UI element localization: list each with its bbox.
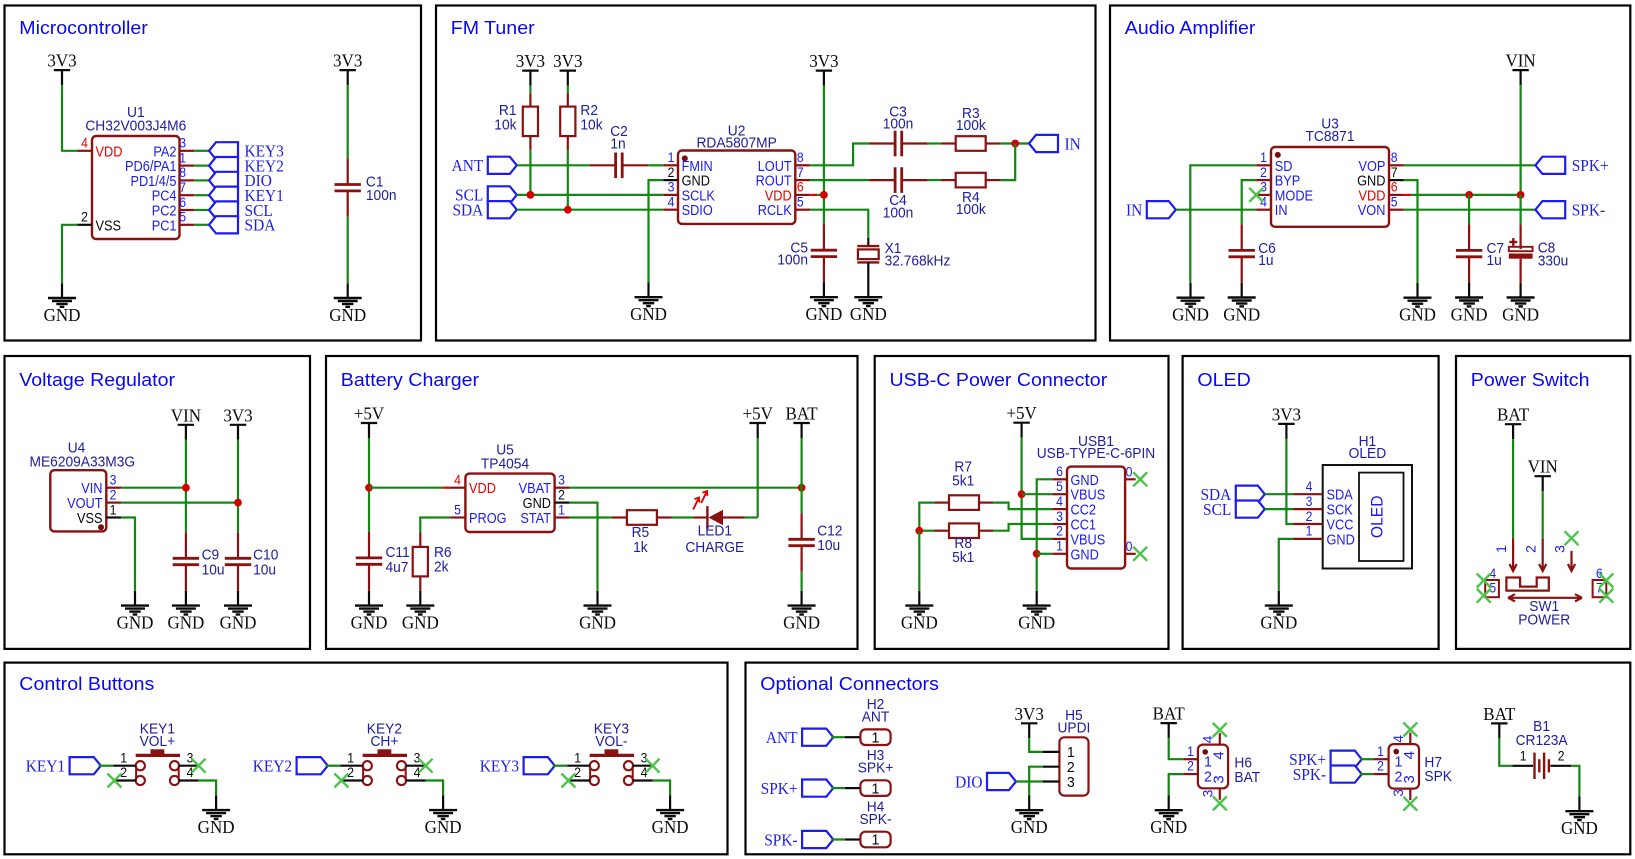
pin 3 of H7 (bottom) [1390, 775, 1418, 800]
svg-text:VOL+: VOL+ [140, 732, 176, 748]
pin 6 GND of USB1 [1052, 463, 1099, 488]
pin 7 GND of U3 [1357, 164, 1404, 189]
power VIN (amp) [1505, 50, 1535, 85]
svg-text:Battery Charger: Battery Charger [341, 371, 480, 391]
svg-text:GND: GND [167, 612, 204, 633]
power BAT (charger) [786, 403, 818, 438]
svg-text:Voltage Regulator: Voltage Regulator [19, 371, 175, 391]
wire C7 to VDD [1468, 195, 1470, 225]
svg-text:C9: C9 [202, 546, 220, 562]
svg-text:GND: GND [198, 817, 235, 838]
svg-text:3V3: 3V3 [333, 50, 362, 71]
svg-text:3: 3 [641, 750, 648, 766]
svg-text:3V3: 3V3 [809, 51, 838, 72]
pin 1 of H7 [1373, 743, 1402, 771]
pin 3 of SW1 (no connect) [1551, 531, 1578, 571]
svg-text:1: 1 [1187, 743, 1194, 759]
pin 2 GND of U5 [523, 487, 570, 512]
svg-text:2: 2 [1187, 758, 1194, 774]
pin 3 SCLK of U2 [663, 179, 715, 204]
no-connect X H7 pin3 [1403, 797, 1417, 811]
svg-text:BAT: BAT [1497, 404, 1529, 425]
svg-text:10u: 10u [253, 561, 276, 577]
svg-text:2: 2 [1377, 758, 1384, 774]
junction +5V-VDD [365, 484, 373, 492]
wire 3V3 to U1 VDD [62, 85, 78, 151]
svg-text:SDA: SDA [452, 202, 483, 220]
hierarchical label ANT [452, 157, 517, 176]
ground (U5 GND) [579, 591, 616, 633]
svg-text:KEY3: KEY3 [480, 758, 519, 776]
wire DIO to H5 pin3 [1016, 780, 1042, 782]
wire VIN rail [185, 440, 187, 533]
no-connect X KEY1 pin2 [107, 774, 121, 788]
hierarchical label DIO [209, 172, 272, 191]
wire BAT to H6 pin1 [1169, 738, 1184, 759]
svg-text:5: 5 [1391, 194, 1398, 210]
svg-text:100n: 100n [883, 115, 914, 131]
wire U1 PD1/4/5 to label DIO [194, 179, 209, 181]
no-connect X SW1 pin6 [1599, 574, 1613, 588]
svg-text:VIN: VIN [1505, 50, 1535, 71]
svg-text:GND: GND [630, 304, 667, 325]
pin 5 VON of U3 [1358, 194, 1404, 219]
no-connect X SW1 pin5 [1477, 589, 1491, 603]
svg-text:LED1: LED1 [698, 522, 733, 538]
svg-text:Audio Amplifier: Audio Amplifier [1125, 18, 1256, 38]
junction VDD-C8 [1517, 191, 1525, 199]
junction VOUT-3V3 [234, 499, 242, 507]
wire R8 to CC1 [993, 524, 1052, 531]
svg-text:32.768kHz: 32.768kHz [885, 252, 951, 268]
pin 3 of H5 [1043, 774, 1075, 790]
power VIN (regulator) [171, 405, 201, 440]
svg-text:1: 1 [347, 750, 354, 766]
wire C1 to GND [347, 217, 349, 283]
pin 8 LOUT of U2 [758, 149, 810, 174]
wire KEY2 to switch [326, 765, 341, 767]
svg-text:SPK-: SPK- [764, 832, 797, 850]
capacitor C8 330u polarized [1509, 224, 1569, 282]
svg-text:Microcontroller: Microcontroller [19, 18, 148, 38]
hierarchical label SPK+ (H7) [1289, 751, 1362, 770]
wire ANT to C2 [517, 164, 590, 166]
svg-text:VON: VON [1358, 201, 1386, 218]
svg-text:C10: C10 [253, 546, 278, 562]
svg-text:ANT: ANT [766, 730, 798, 748]
svg-text:1: 1 [1520, 748, 1527, 764]
switch KEY3 VOL- [567, 720, 652, 785]
wire B1 to ground [1571, 766, 1579, 797]
svg-text:VDD: VDD [469, 479, 496, 496]
pin 4 of H7 (top) [1390, 733, 1418, 760]
section frame Power Switch [1456, 356, 1630, 649]
ground (KEY3) [652, 795, 689, 837]
wire U4 VSS to ground [121, 518, 135, 591]
ground (X1) [850, 283, 887, 325]
svg-text:GND: GND [351, 612, 388, 633]
pin 1 SD of U3 [1256, 149, 1292, 174]
ground (C9) [167, 591, 204, 633]
wire 3V3 rail [237, 440, 239, 533]
pins 4 5 of SW1 [1485, 565, 1499, 597]
connector USB1 USB-TYPE-C-6PIN [1037, 433, 1155, 569]
ic U2 RDA5807MP [678, 122, 795, 224]
resistor R5 1k [612, 510, 672, 555]
svg-text:3V3: 3V3 [1272, 404, 1301, 425]
svg-text:Control Buttons: Control Buttons [19, 675, 154, 695]
svg-text:7: 7 [179, 179, 186, 195]
hierarchical label KEY3 [480, 757, 555, 776]
svg-text:2: 2 [574, 764, 581, 780]
svg-text:GND: GND [805, 304, 842, 325]
pin 8 VOP of U3 [1358, 149, 1403, 174]
svg-text:2: 2 [1523, 545, 1539, 553]
svg-text:GND: GND [850, 304, 887, 325]
power 3V3 (R2) [553, 51, 582, 86]
svg-text:VOL-: VOL- [595, 732, 627, 748]
wire SCL to U2 SCLK [517, 194, 663, 196]
wire SPK+ to H3 [831, 787, 860, 789]
svg-text:VSS: VSS [77, 509, 102, 526]
svg-text:SDIO: SDIO [682, 201, 713, 218]
wire GND pin1 join [1037, 553, 1053, 555]
power 3V3 (regulator) [223, 405, 252, 440]
svg-text:1: 1 [1056, 538, 1063, 554]
pin 1 GND of USB1 [1052, 538, 1099, 563]
pin 2 VOUT of U4 [67, 487, 121, 512]
wire U5 PROG to R6 [420, 518, 450, 533]
power +5V (LED) [743, 403, 774, 438]
wire R7 to CC2 [993, 503, 1052, 510]
wire U2 LOUT to C3 [810, 144, 869, 166]
svg-text:OLED: OLED [1197, 371, 1250, 391]
svg-text:1: 1 [1306, 523, 1313, 539]
wire GND pins bus [1037, 479, 1053, 591]
power BAT (B1) [1483, 703, 1515, 738]
svg-text:1u: 1u [1487, 252, 1502, 268]
section frame USB-C Power Connector [875, 356, 1169, 649]
capacitor C1 100n [335, 158, 397, 217]
section frame OLED [1183, 356, 1439, 649]
pin 2 VSS of U1 [78, 209, 121, 234]
wire R1 to SCL [529, 150, 531, 195]
svg-text:GND: GND [1223, 304, 1260, 325]
hierarchical label SCL [209, 201, 273, 220]
svg-text:2: 2 [81, 209, 88, 225]
svg-text:BAT: BAT [1483, 703, 1515, 724]
svg-text:100n: 100n [883, 204, 914, 220]
svg-text:3: 3 [1401, 775, 1418, 783]
hierarchical label KEY1 [26, 757, 101, 776]
wire LED1 to +5V [745, 516, 758, 518]
svg-text:1: 1 [1493, 545, 1509, 553]
svg-text:DIO: DIO [955, 774, 982, 792]
wire VIN to VDD rail [1519, 85, 1521, 195]
hierarchical label SDA [452, 201, 516, 220]
svg-text:1: 1 [872, 730, 880, 746]
wire BAT to B1 [1499, 738, 1512, 765]
pin 4 VDD of U5 [450, 472, 495, 497]
wire 3V3 to OLED VCC [1286, 439, 1293, 524]
hierarchical label IN (FM out) [1029, 135, 1081, 154]
svg-text:GND: GND [1260, 612, 1297, 633]
svg-text:CH32V003J4M6: CH32V003J4M6 [85, 117, 186, 133]
svg-text:3V3: 3V3 [223, 405, 252, 426]
section frame Battery Charger [326, 356, 858, 649]
pin 2 VBUS of USB1 [1052, 523, 1105, 548]
wire R8 to ground [918, 531, 920, 591]
svg-text:2: 2 [110, 487, 117, 503]
section frame Microcontroller [5, 6, 422, 341]
capacitor C10 10u [225, 532, 279, 591]
power BAT (H6) [1153, 703, 1185, 738]
pin 8 PD1/4/5 of U1 [130, 164, 194, 189]
ground (U3 GND) [1399, 283, 1436, 325]
svg-text:SPK+: SPK+ [858, 759, 894, 775]
no-connect X shield bottom [1133, 547, 1147, 561]
svg-text:2: 2 [668, 164, 675, 180]
svg-text:2: 2 [1558, 748, 1565, 764]
svg-text:3V3: 3V3 [553, 51, 582, 72]
svg-text:100n: 100n [366, 187, 397, 203]
ground (H6) [1150, 796, 1187, 838]
connector H4 SPK- [859, 798, 891, 849]
no-connect X H6 pin3 [1213, 796, 1227, 810]
power +5V (charger in) [354, 403, 385, 438]
pin 4 IN of U3 [1256, 194, 1287, 219]
capacitor C12 10u [788, 513, 842, 572]
svg-text:100k: 100k [956, 117, 987, 133]
svg-text:USB-TYPE-C-6PIN: USB-TYPE-C-6PIN [1037, 445, 1155, 461]
svg-text:8: 8 [1391, 149, 1398, 165]
resistor R1 10k [494, 86, 538, 151]
ground (SD) [1172, 283, 1209, 325]
svg-text:100n: 100n [777, 251, 808, 267]
hierarchical label KEY2 [253, 757, 328, 776]
crystal X1 32.768kHz [857, 238, 950, 283]
svg-text:4: 4 [1401, 751, 1418, 759]
svg-text:TP4054: TP4054 [481, 455, 529, 471]
svg-text:GND: GND [1327, 530, 1355, 547]
ground (C10) [220, 591, 257, 633]
pin 6 PC2 of U1 [152, 194, 195, 219]
svg-text:4: 4 [1056, 493, 1063, 509]
junction +5V-VBUS5 [1018, 490, 1026, 498]
wire R5 to LED1 [672, 516, 693, 518]
hierarchical label KEY1 [209, 187, 284, 206]
wire 3V3 to H5 pin1 [1029, 738, 1043, 752]
svg-text:1: 1 [668, 149, 675, 165]
svg-text:GND: GND [329, 304, 366, 325]
svg-text:IN: IN [1126, 202, 1143, 220]
wire U3 SD branch to ground [1189, 210, 1191, 283]
svg-text:2: 2 [120, 764, 127, 780]
svg-text:3: 3 [179, 135, 186, 151]
svg-text:GND: GND [1561, 818, 1598, 839]
svg-text:4: 4 [1260, 194, 1267, 210]
wire OLED GND to ground [1279, 539, 1294, 591]
svg-text:VDD: VDD [96, 142, 123, 159]
pin 1 STAT of U5 [520, 502, 569, 527]
power 3V3 (U1) [47, 50, 76, 85]
no-connect X KEY1 pin3 [192, 759, 206, 773]
svg-text:3: 3 [110, 472, 117, 488]
svg-text:GND: GND [1150, 817, 1187, 838]
connector H2 ANT [860, 696, 890, 747]
svg-text:1: 1 [872, 781, 880, 797]
svg-text:CR123A: CR123A [1516, 732, 1569, 748]
resistor R4 100k [941, 173, 1001, 217]
wire U4 VIN pin to rail [121, 487, 186, 489]
hierarchical label SPK- (H7) [1293, 766, 1362, 785]
junction VIN [182, 484, 190, 492]
capacitor C9 10u [173, 532, 225, 591]
hierarchical label KEY2 [209, 157, 284, 176]
wire U3 VON to SPK- [1404, 209, 1536, 211]
wire U3 GND to ground [1404, 180, 1418, 283]
resistor R8 5k1 [934, 523, 993, 564]
wire U2 RCLK to X1 [810, 210, 868, 238]
ground (R6) [402, 591, 439, 633]
wire U2 VDD stub join [810, 194, 824, 196]
junction IN node [1011, 140, 1019, 148]
wire GND bus to R8 [919, 530, 934, 532]
svg-text:3: 3 [1260, 179, 1267, 195]
pin 4 VDD of U1 [78, 135, 123, 160]
wire 3V3 to C1 [347, 85, 349, 158]
wire U1 PA2 to label KEY3 [194, 150, 209, 152]
svg-text:3: 3 [1390, 789, 1406, 797]
svg-text:UPDI: UPDI [1057, 719, 1090, 735]
wire VBUS pin5 join [1022, 493, 1053, 495]
svg-text:1: 1 [120, 750, 127, 766]
wire ANT to H2 [831, 736, 860, 738]
svg-text:TC8871: TC8871 [1306, 127, 1355, 143]
junction R7-R8-GND [915, 527, 923, 535]
pin 3 of H6 (bottom) [1200, 775, 1228, 799]
power 3V3 (U2 VDD) [809, 51, 838, 86]
svg-text:GND: GND [117, 612, 154, 633]
wire KEY2 pin4 to ground [426, 781, 444, 796]
svg-text:BAT: BAT [1234, 769, 1260, 785]
hierarchical label SCL (OLED) [1203, 501, 1265, 520]
power 3V3 (OLED) [1272, 404, 1301, 439]
hierarchical label SDA (OLED) [1200, 486, 1264, 505]
svg-text:PROG: PROG [469, 509, 507, 526]
svg-text:POWER: POWER [1518, 611, 1570, 627]
resistor R3 100k [941, 105, 1001, 151]
svg-text:2: 2 [1260, 164, 1267, 180]
ground (B1) [1561, 797, 1598, 839]
svg-text:3: 3 [1551, 545, 1567, 553]
no-connect X SW1 pin4 [1477, 574, 1491, 588]
resistor R7 5k1 [934, 458, 993, 510]
hierarchical label SPK+ [1535, 157, 1608, 176]
svg-text:ANT: ANT [862, 708, 890, 724]
svg-text:3: 3 [1067, 774, 1075, 790]
wire C8 to VDD [1519, 195, 1521, 225]
ic U3 TC8871 [1271, 115, 1389, 227]
no-connect X KEY3 pin2 [561, 774, 575, 788]
pin 4 SDIO of U2 [663, 194, 713, 219]
junction VBAT-BAT [798, 484, 806, 492]
wire SDA to U2 SDIO [517, 209, 663, 211]
wire KEY3 to switch [553, 765, 568, 767]
section frame Optional Connectors [746, 663, 1631, 855]
svg-text:+5V: +5V [354, 403, 385, 424]
pin 0 shield bottom of USB1 [1125, 538, 1136, 554]
svg-text:3: 3 [187, 750, 194, 766]
ground (C8) [1502, 283, 1539, 325]
svg-text:CH+: CH+ [370, 732, 398, 748]
svg-text:3V3: 3V3 [47, 50, 76, 71]
svg-text:GND: GND [652, 817, 689, 838]
svg-text:8: 8 [179, 164, 186, 180]
svg-text:GND: GND [44, 304, 81, 325]
no-connect X H6 pin4 [1213, 723, 1227, 737]
no-connect X KEY2 pin2 [334, 774, 348, 788]
hierarchical label SPK- [1535, 201, 1605, 220]
svg-text:1u: 1u [1258, 252, 1273, 268]
svg-text:5k1: 5k1 [952, 548, 974, 564]
svg-text:RCLK: RCLK [758, 201, 793, 218]
ground (C12) [783, 591, 820, 633]
wire 3V3 to U2 VDD rail [823, 86, 825, 225]
wire U1 VSS to GND [62, 225, 78, 283]
svg-text:6: 6 [179, 194, 186, 210]
svg-text:330u: 330u [1538, 252, 1569, 268]
no-connect X KEY2 pin3 [419, 759, 433, 773]
ground (U1 VSS) [44, 283, 81, 325]
capacitor C6 1u [1229, 224, 1276, 282]
ground (OLED) [1260, 591, 1297, 633]
svg-text:SPK+: SPK+ [761, 781, 798, 799]
svg-text:1: 1 [1260, 149, 1267, 165]
wire SCL to OLED [1265, 508, 1293, 510]
wire KEY1 to switch [99, 765, 114, 767]
svg-text:ANT: ANT [452, 158, 484, 176]
svg-text:5: 5 [179, 209, 186, 225]
svg-text:PC1: PC1 [152, 216, 177, 233]
svg-text:3V3: 3V3 [516, 51, 545, 72]
wire +5V rail [368, 438, 370, 532]
svg-text:10k: 10k [580, 116, 603, 132]
ic U5 TP4054 [465, 441, 554, 532]
svg-text:GND: GND [425, 817, 462, 838]
junction R2-SDA [564, 206, 572, 214]
svg-text:3: 3 [668, 179, 675, 195]
pin 3 MODE of U3 [1256, 179, 1313, 204]
wire C2 to U2 FMIN [648, 164, 663, 166]
wire R2 to SDA [567, 150, 569, 210]
svg-text:GND: GND [1071, 545, 1099, 562]
pin 1 of SW1 [1493, 538, 1517, 571]
capacitor C2 1n [590, 123, 649, 178]
svg-text:4: 4 [454, 472, 461, 488]
svg-text:1: 1 [872, 832, 880, 848]
svg-text:1n: 1n [610, 135, 625, 151]
hierarchical label IN (amp in) [1126, 201, 1176, 220]
pin 7 PC4 of U1 [152, 179, 195, 204]
svg-text:RDA5807MP: RDA5807MP [696, 134, 776, 150]
capacitor C3 100n [869, 103, 928, 156]
no-connect X KEY3 pin3 [646, 759, 660, 773]
display module H1 OLED [1323, 433, 1412, 569]
svg-text:SCL: SCL [1203, 502, 1231, 520]
svg-text:4u7: 4u7 [386, 559, 409, 575]
junction U2 VDD [820, 191, 828, 199]
